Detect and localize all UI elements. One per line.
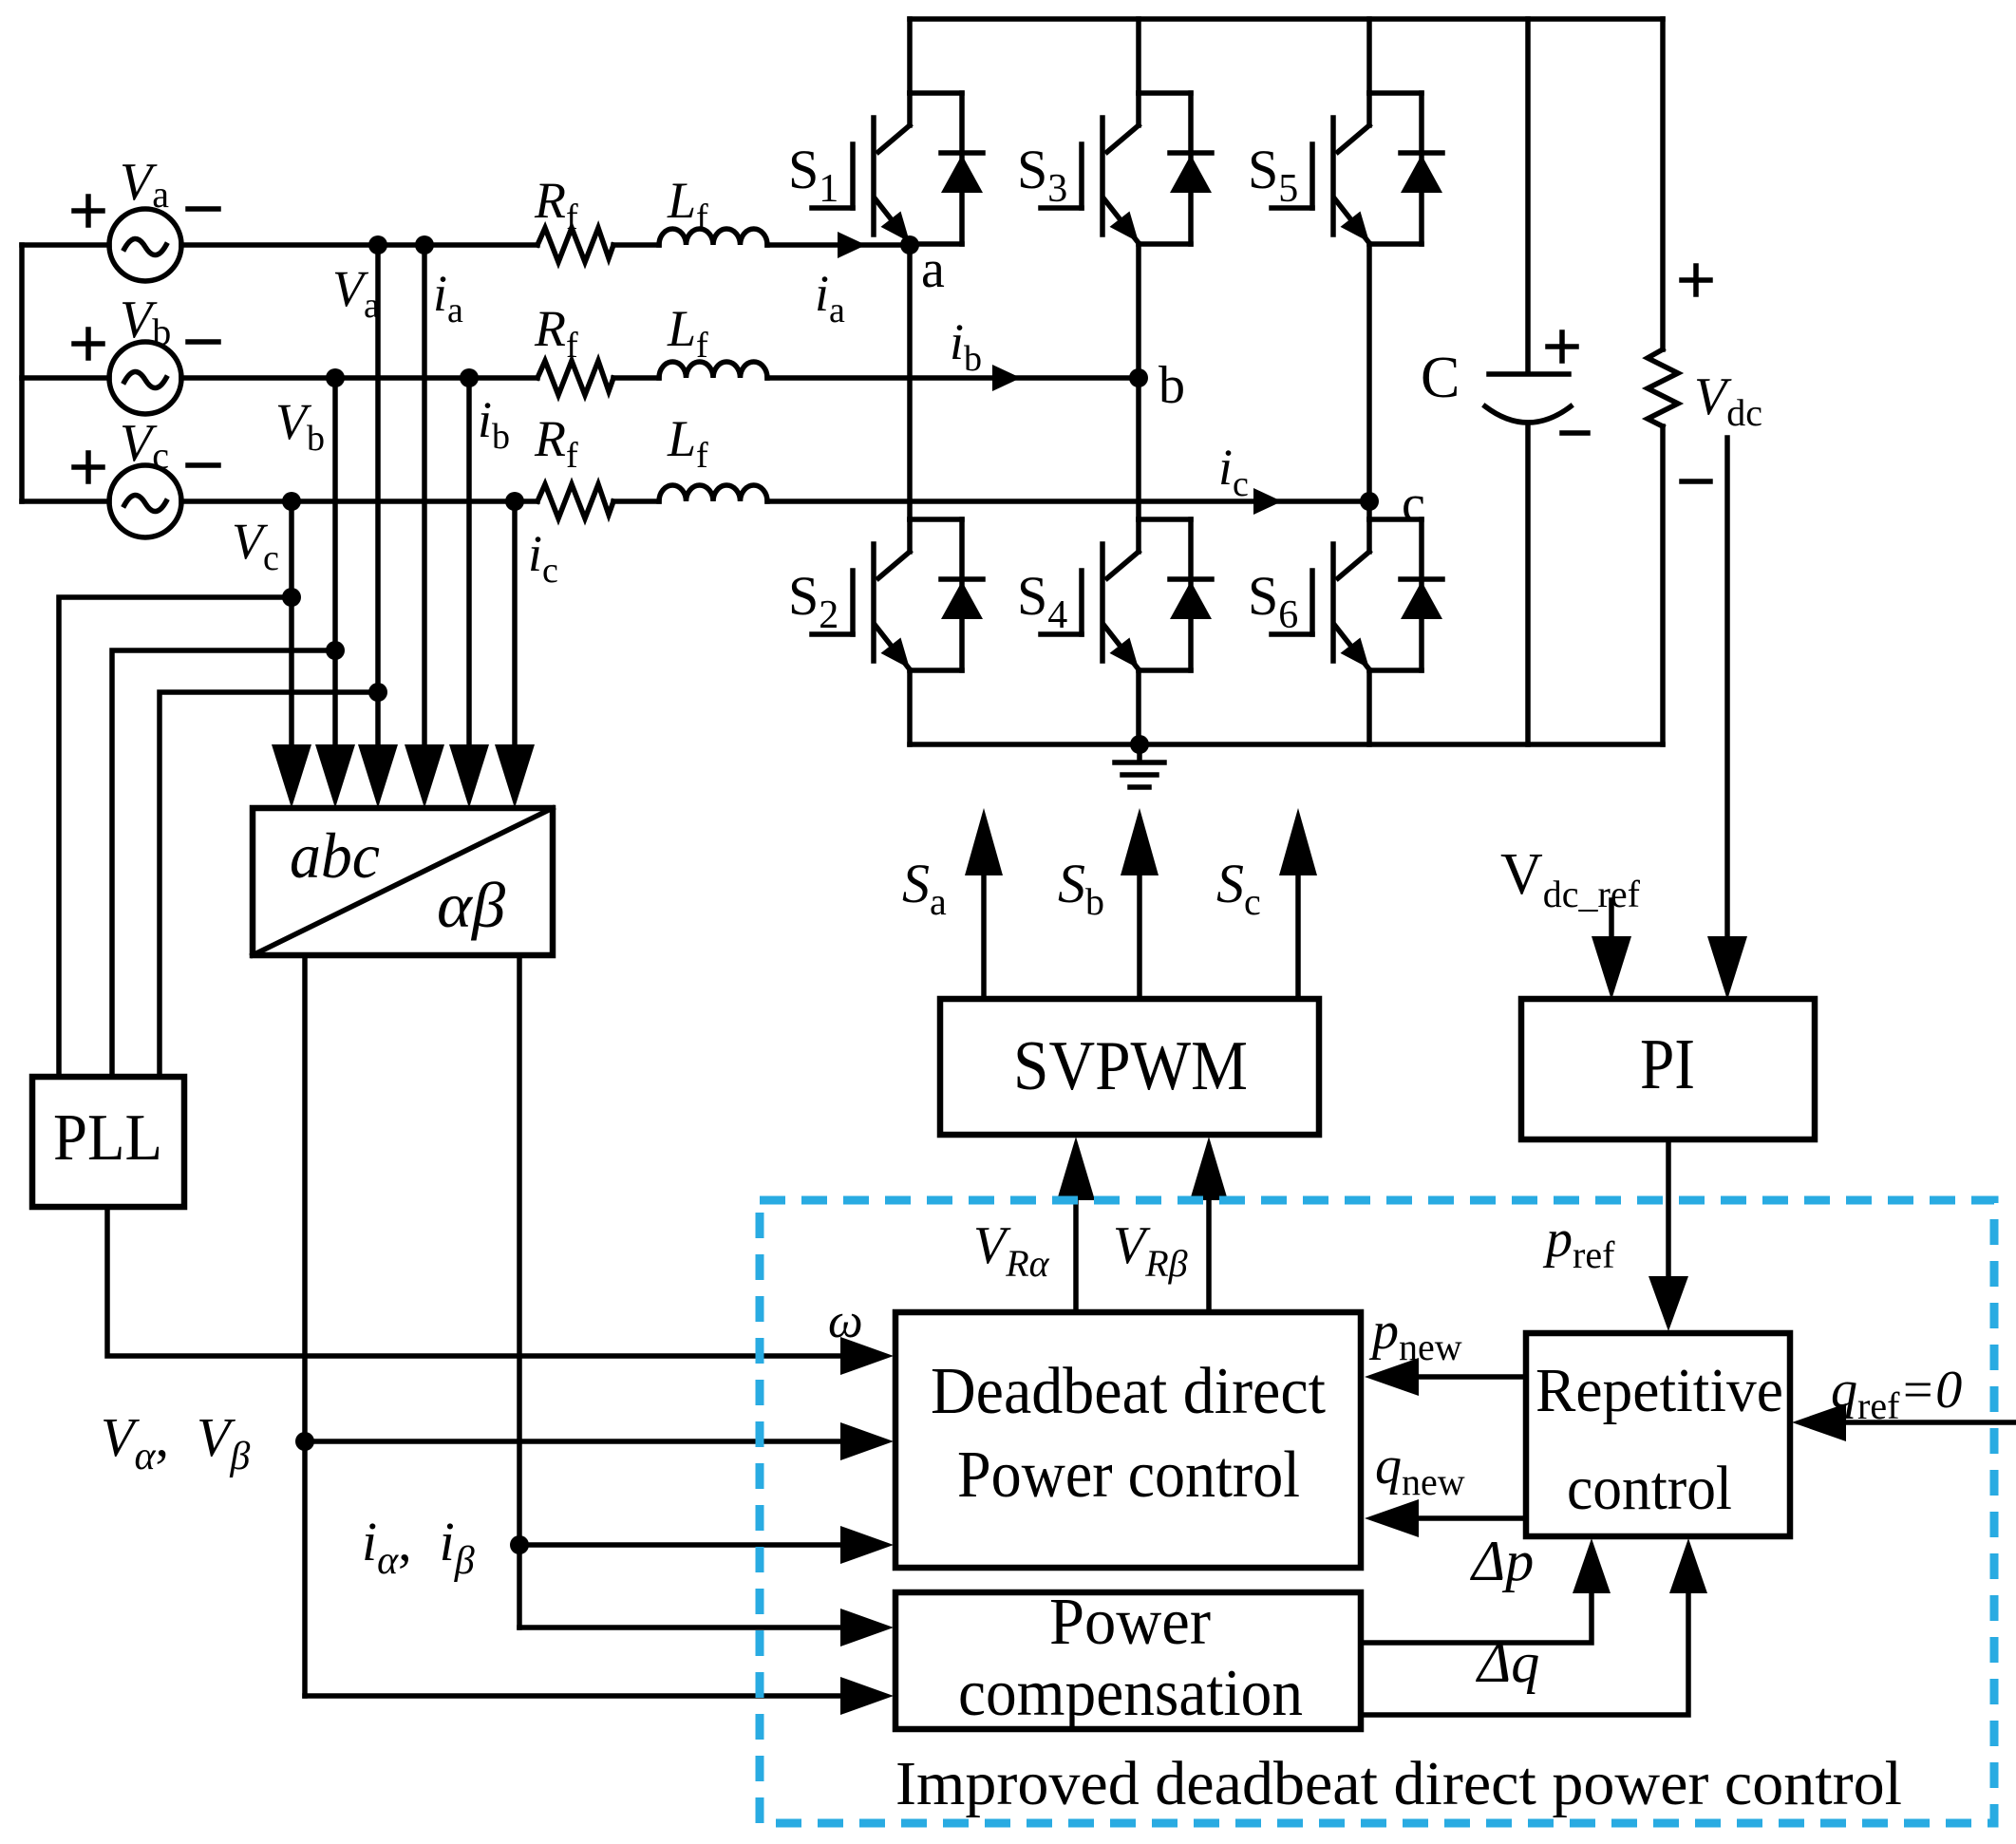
- node ib tap: [460, 368, 479, 387]
- arrow Vdc into PI: [1707, 936, 1747, 1000]
- svg-text:Repetitive: Repetitive: [1536, 1356, 1783, 1425]
- wire leg3 top (to S5): [1366, 19, 1372, 93]
- wire Valpha/Vbeta to Power compensation: [305, 1693, 842, 1699]
- AC source Va: [109, 209, 181, 281]
- wire Valpha/Vbeta from abc block: [302, 955, 308, 1696]
- wire qref into Repetitive: [1842, 1420, 2016, 1425]
- svg-text:S4: S4: [1017, 565, 1067, 637]
- wire phase A between R and L: [613, 242, 659, 248]
- node ialpha junction: [510, 1535, 529, 1554]
- wire phase C to node c: [767, 499, 1369, 504]
- svg-text:Vdc_ref: Vdc_ref: [1500, 842, 1641, 915]
- svg-text:Rf: Rf: [534, 410, 578, 476]
- minus sign Vc: [188, 462, 218, 468]
- block abc/alphabeta transform: [253, 808, 553, 955]
- resistor Rf phase A: [537, 228, 613, 262]
- wire qnew from Repetitive to Deadbeat: [1417, 1515, 1526, 1521]
- minus sign Va: [188, 206, 218, 212]
- arrow ia on phase A wire: [838, 232, 866, 258]
- arrow qref into Repetitive: [1792, 1403, 1846, 1441]
- block Repetitive control: [1526, 1333, 1790, 1536]
- svg-text:compensation: compensation: [958, 1657, 1303, 1730]
- AC source Vb: [109, 342, 181, 414]
- minus sign capacitor: [1562, 430, 1588, 436]
- capacitor C: [1485, 374, 1571, 744]
- wire ia tap down: [422, 245, 427, 750]
- arrow ialpha/ibeta into Power compensation: [840, 1609, 894, 1646]
- arrow into abc block (ic): [495, 744, 535, 808]
- wire phase B left: [22, 375, 109, 381]
- wire phase C left: [22, 499, 109, 504]
- svg-text:pref: pref: [1542, 1210, 1615, 1276]
- wire pref from PI: [1666, 1139, 1671, 1280]
- wire Va branch to PLL: [160, 692, 378, 1077]
- svg-text:PLL: PLL: [53, 1101, 162, 1175]
- plus sign capacitor: [1548, 332, 1576, 361]
- wire Vc branch to PLL: [59, 597, 292, 1077]
- svg-text:Va: Va: [120, 153, 169, 216]
- label S1: [788, 139, 838, 211]
- arrow Sc: [1279, 808, 1317, 875]
- plus sign Vc: [74, 453, 103, 481]
- arrow ic on phase C wire: [1253, 488, 1282, 515]
- svg-text:S6: S6: [1248, 565, 1298, 637]
- wire phase A to resistor: [181, 242, 537, 248]
- arrow qnew into Deadbeat: [1365, 1499, 1419, 1537]
- resistor Rf phase C: [537, 484, 613, 518]
- arrow into abc block (Vb): [315, 744, 355, 808]
- ground: [1115, 735, 1164, 787]
- node Vb tap: [326, 368, 345, 387]
- wire Vb branch to PLL: [112, 650, 335, 1077]
- arrow Sb: [1121, 808, 1159, 875]
- arrow VRbeta into SVPWM: [1190, 1137, 1228, 1200]
- minus sign Vdc: [1682, 479, 1710, 484]
- arrow Valpha/Vbeta into Power compensation: [840, 1677, 894, 1715]
- svg-text:SVPWM: SVPWM: [1013, 1027, 1248, 1105]
- svg-text:qnew: qnew: [1375, 1437, 1465, 1503]
- AC source Vc: [109, 465, 181, 537]
- svg-text:Vb: Vb: [120, 291, 171, 353]
- svg-text:Vb: Vb: [275, 393, 325, 459]
- arrow into abc block (ib): [449, 744, 489, 808]
- svg-text:C: C: [1421, 346, 1460, 410]
- transistor Q S3 with diode: [1041, 93, 1212, 244]
- arrow into abc block (Va): [358, 744, 398, 808]
- wire VRbeta up to SVPWM: [1206, 1198, 1212, 1312]
- block PLL: [32, 1077, 184, 1207]
- svg-text:Rf: Rf: [534, 172, 578, 237]
- svg-text:ib: ib: [478, 391, 510, 457]
- svg-text:Sb: Sb: [1058, 853, 1104, 923]
- label S4: [1017, 565, 1067, 637]
- inductor Lf phase A: [659, 229, 767, 245]
- svg-text:αβ: αβ: [437, 869, 505, 941]
- wire Va tap down: [375, 245, 381, 750]
- wire ialpha/ibeta to Deadbeat: [519, 1542, 842, 1548]
- resistor Vdc load: [1648, 349, 1678, 426]
- svg-text:Δp: Δp: [1470, 1530, 1534, 1592]
- node ic tap: [505, 492, 524, 511]
- node b: [1129, 368, 1148, 387]
- arrow pref into Repetitive: [1649, 1276, 1688, 1331]
- arrow ib on phase B wire: [992, 365, 1021, 391]
- wire Sa: [981, 874, 987, 999]
- svg-text:Lf: Lf: [667, 410, 708, 476]
- wire Sc: [1295, 874, 1301, 999]
- wire pnew from Repetitive to Deadbeat: [1417, 1374, 1526, 1380]
- plus sign Vb: [74, 329, 103, 358]
- wire Delta-q from Power compensation: [1361, 1590, 1688, 1715]
- wire leg2 top (to S3): [1136, 19, 1141, 93]
- label S6: [1248, 565, 1298, 637]
- node a: [900, 235, 919, 254]
- svg-text:Rf: Rf: [534, 300, 578, 366]
- wire Sb: [1137, 874, 1142, 999]
- block Power compensation: [895, 1592, 1361, 1729]
- wire leg1 middle (node a to S2): [907, 244, 913, 519]
- node c: [1360, 492, 1379, 511]
- node junction Vc-PLL branch: [282, 588, 301, 607]
- wire DC top bus: [910, 16, 1663, 22]
- wire VRalpha up to SVPWM: [1073, 1198, 1079, 1312]
- wire leg2 bottom: [1136, 670, 1141, 744]
- block PI: [1521, 999, 1815, 1139]
- block SVPWM: [940, 999, 1319, 1135]
- wire ib tap down: [466, 378, 472, 750]
- node Vc tap: [282, 492, 301, 511]
- wire leg1 top (to S1): [907, 19, 913, 93]
- svg-text:b: b: [1159, 356, 1185, 415]
- svg-text:Lf: Lf: [667, 172, 708, 237]
- inductor Lf phase B: [659, 362, 767, 378]
- wire DC bottom bus: [910, 742, 1663, 747]
- svg-text:a: a: [921, 240, 945, 299]
- arrow omega into Deadbeat: [840, 1337, 894, 1375]
- arrow pnew into Deadbeat: [1365, 1358, 1419, 1396]
- label S2: [788, 565, 838, 637]
- node junction Va-PLL branch: [368, 683, 387, 702]
- svg-text:ib: ib: [950, 313, 982, 379]
- svg-text:Vα, Vβ: Vα, Vβ: [101, 1406, 250, 1478]
- wire leg3 middle (node c to S6): [1366, 244, 1372, 519]
- arrow Sa: [965, 808, 1003, 875]
- svg-text:Sa: Sa: [902, 853, 947, 923]
- arrow into abc block (Vc): [272, 744, 311, 808]
- capacitor C branch top wire: [1525, 19, 1531, 371]
- svg-text:ic: ic: [1218, 439, 1249, 504]
- svg-text:VRβ: VRβ: [1113, 1216, 1188, 1285]
- arrow Vdc_ref into PI: [1592, 936, 1631, 1000]
- svg-text:S3: S3: [1017, 139, 1067, 211]
- wire ialpha/ibeta from abc block: [517, 955, 522, 1628]
- svg-text:ia: ia: [433, 265, 463, 330]
- wire phase B to resistor: [181, 375, 537, 381]
- node junction Vb-PLL branch: [326, 641, 345, 660]
- wire Valpha/Vbeta to Deadbeat: [305, 1439, 842, 1444]
- block Deadbeat direct Power control: [895, 1312, 1361, 1568]
- diagonal of abc block: [253, 808, 553, 955]
- load branch bottom wire: [1660, 426, 1666, 744]
- wire ialpha/ibeta to Power compensation: [519, 1625, 842, 1630]
- svg-text:ic: ic: [528, 525, 558, 591]
- label S5: [1248, 139, 1298, 211]
- svg-text:PI: PI: [1640, 1025, 1695, 1104]
- load branch top wire: [1660, 19, 1666, 349]
- svg-text:Sc: Sc: [1216, 853, 1261, 923]
- transistor Q S2 with diode: [812, 519, 983, 670]
- svg-text:Power control: Power control: [957, 1439, 1300, 1512]
- dashed box Improved deadbeat direct power control: [760, 1200, 1994, 1823]
- arrow Valpha/Vbeta into Deadbeat: [840, 1422, 894, 1460]
- svg-text:VRα: VRα: [973, 1216, 1050, 1285]
- svg-text:Improved deadbeat direct power: Improved deadbeat direct power control: [895, 1749, 1902, 1818]
- svg-text:abc: abc: [290, 819, 380, 892]
- wire Vdc sense down to PI: [1724, 438, 1730, 940]
- svg-text:Vc: Vc: [120, 414, 169, 477]
- transistor Q S1 with diode: [812, 93, 983, 244]
- svg-text:Deadbeat direct: Deadbeat direct: [931, 1355, 1327, 1428]
- svg-text:Vc: Vc: [232, 513, 279, 578]
- svg-text:pnew: pnew: [1368, 1302, 1462, 1368]
- svg-text:Δq: Δq: [1476, 1631, 1539, 1694]
- wire Vdc_ref into PI: [1609, 900, 1614, 940]
- inductor Lf phase C: [659, 485, 767, 501]
- wire Vc tap down: [289, 501, 294, 750]
- wire omega from PLL: [107, 1207, 842, 1356]
- wire leg3 bottom: [1366, 670, 1372, 744]
- arrow into abc block (ia): [405, 744, 444, 808]
- wire phase C between R and L: [613, 499, 659, 504]
- wire Delta-p from Power compensation: [1361, 1590, 1592, 1643]
- node ia tap: [415, 235, 434, 254]
- svg-text:ia: ia: [815, 265, 845, 330]
- wire phase B to node b: [767, 375, 1139, 381]
- svg-text:control: control: [1567, 1454, 1732, 1523]
- svg-text:Va: Va: [332, 260, 380, 326]
- svg-text:Power: Power: [1049, 1586, 1211, 1659]
- minus sign Vb: [188, 339, 218, 345]
- arrow VRalpha into SVPWM: [1057, 1137, 1095, 1200]
- svg-text:S2: S2: [788, 565, 838, 637]
- left bus wire: [19, 245, 25, 501]
- arrow ialpha/ibeta into Deadbeat: [840, 1526, 894, 1564]
- node Va tap: [368, 235, 387, 254]
- node Valpha junction: [295, 1432, 314, 1451]
- wire phase A to node a: [767, 242, 910, 248]
- transistor Q S4 with diode: [1041, 519, 1212, 670]
- plus sign Va: [74, 197, 103, 225]
- svg-text:S1: S1: [788, 139, 838, 211]
- wire phase B between R and L: [613, 375, 659, 381]
- wire phase C to resistor: [181, 499, 537, 504]
- label S3: [1017, 139, 1067, 211]
- wire phase A left: [22, 242, 109, 248]
- transistor Q S5 with diode: [1272, 93, 1442, 244]
- wire ic tap down: [512, 501, 518, 750]
- wire Vb tap down: [332, 378, 338, 750]
- resistor Rf phase B: [537, 361, 613, 395]
- svg-text:qref=0: qref=0: [1831, 1361, 1962, 1427]
- transistor Q S6 with diode: [1272, 519, 1442, 670]
- arrow Delta-p into Repetitive: [1573, 1538, 1611, 1593]
- svg-text:S5: S5: [1248, 139, 1298, 211]
- wire leg1 bottom: [907, 670, 913, 744]
- svg-text:iα, iβ: iα, iβ: [362, 1511, 475, 1583]
- svg-text:Lf: Lf: [667, 300, 708, 366]
- arrow Delta-q into Repetitive: [1669, 1538, 1707, 1593]
- svg-text:Vdc: Vdc: [1694, 367, 1762, 434]
- wire leg2 middle (node b to S4): [1136, 244, 1141, 519]
- svg-text:ω: ω: [828, 1294, 863, 1348]
- plus sign Vdc: [1682, 266, 1710, 294]
